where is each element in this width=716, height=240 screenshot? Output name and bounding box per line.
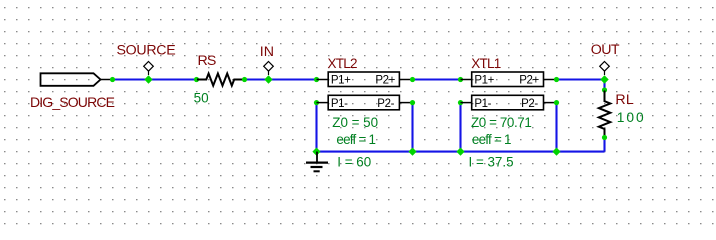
pin P2- dot bbox=[554, 100, 559, 105]
ground bar 3 bbox=[314, 170, 320, 172]
marker stem bbox=[604, 71, 606, 75]
svg-text:SOURCE: SOURCE bbox=[117, 42, 176, 58]
svg-text:P1+: P1+ bbox=[474, 75, 494, 87]
svg-text:IN: IN bbox=[260, 44, 274, 60]
svg-text:P2+: P2+ bbox=[375, 75, 395, 87]
resistor RL bbox=[599, 87, 646, 140]
node diamond marker bbox=[600, 62, 610, 72]
wire bottom ground rail bbox=[317, 151, 605, 153]
pin P2+ lead bbox=[399, 79, 412, 81]
pin P2- dot bbox=[410, 100, 415, 105]
wire from DIG_SOURCE pin to node SOURCE and resistor RS pin 1 bbox=[113, 78, 197, 80]
pin 1 dot bbox=[602, 87, 607, 92]
marker stem bbox=[268, 71, 270, 75]
pin 1 dot bbox=[194, 77, 199, 82]
ground bbox=[306, 152, 328, 172]
svg-text:Z0 = 70.71: Z0 = 70.71 bbox=[471, 115, 531, 130]
node OUT bbox=[591, 42, 620, 84]
source body outline bbox=[41, 73, 101, 86]
junction node at ground rail x=460.5 bbox=[456, 148, 464, 156]
svg-text:DIG_SOURCE: DIG_SOURCE bbox=[30, 94, 115, 110]
output pin lead bbox=[101, 79, 113, 81]
svg-text:P2-: P2- bbox=[377, 98, 394, 110]
positive port box bbox=[328, 72, 399, 87]
pin P2+ lead bbox=[544, 79, 557, 81]
svg-text:50: 50 bbox=[194, 91, 209, 106]
ground bar 2 bbox=[311, 166, 323, 168]
svg-text:eeff = 1: eeff = 1 bbox=[336, 132, 375, 147]
pin P1- dot bbox=[458, 100, 463, 105]
svg-text:eeff = 1: eeff = 1 bbox=[472, 132, 511, 147]
ground stem bbox=[316, 152, 318, 163]
pin P1+ lead bbox=[461, 79, 472, 81]
wire from XTL1 pin P2- down to ground rail bbox=[555, 103, 557, 152]
svg-text:I = 60: I = 60 bbox=[337, 154, 371, 169]
junction node at ground rail x=316.5 bbox=[312, 148, 320, 156]
pin P1+ dot bbox=[314, 77, 319, 82]
svg-text:P1+: P1+ bbox=[331, 75, 351, 87]
junction node at ground rail x=556.5 bbox=[552, 148, 560, 156]
wire from resistor RL pin 2 down and left to ground rail corner bbox=[603, 138, 605, 152]
node IN bbox=[260, 44, 274, 84]
junction node at ground rail x=412.5 bbox=[408, 148, 416, 156]
svg-text:OUT: OUT bbox=[591, 42, 620, 58]
wire from XTL2 pin P2- down to ground rail bbox=[411, 103, 413, 152]
wire from XTL2 pin P2+ to XTL1 pin P1+ bbox=[413, 78, 461, 80]
svg-text:P1-: P1- bbox=[474, 98, 491, 110]
wire from XTL1 pin P2+ to node OUT bbox=[557, 78, 605, 80]
resistor RS bbox=[194, 53, 247, 106]
svg-text:RL: RL bbox=[615, 92, 634, 108]
pin P2+ dot bbox=[410, 77, 415, 82]
pin 2 dot bbox=[242, 77, 247, 82]
ground bar 1 bbox=[306, 162, 328, 164]
node junction dot bbox=[144, 75, 152, 83]
negative port box bbox=[472, 95, 544, 110]
transmission line XTL1 bbox=[458, 56, 559, 110]
digital source U1 DIG_SOURCE bbox=[30, 73, 115, 110]
node diamond marker bbox=[264, 62, 274, 72]
negative port box bbox=[328, 95, 399, 110]
pin P2- lead bbox=[399, 102, 412, 104]
svg-text:100: 100 bbox=[617, 110, 646, 125]
pin P2+ dot bbox=[554, 77, 559, 82]
wire from resistor RS pin 2 through node IN to XTL2 pin P1+ bbox=[245, 78, 317, 80]
marker stem bbox=[148, 71, 150, 75]
wire from node OUT down to resistor RL pin 1 bbox=[603, 80, 605, 91]
node junction dot bbox=[600, 75, 608, 83]
positive port box bbox=[472, 72, 544, 87]
pin P1- lead bbox=[461, 102, 472, 104]
resistor zigzag body bbox=[599, 91, 611, 138]
svg-text:I = 37.5: I = 37.5 bbox=[469, 155, 514, 170]
pin P1- dot bbox=[314, 100, 319, 105]
svg-text:Z0 = 50: Z0 = 50 bbox=[332, 115, 378, 130]
pin dot of DIG_SOURCE output bbox=[110, 77, 115, 82]
transmission line XTL2 bbox=[314, 56, 415, 110]
node SOURCE bbox=[117, 42, 176, 83]
svg-text:P2+: P2+ bbox=[519, 75, 539, 87]
svg-text:P1-: P1- bbox=[331, 98, 348, 110]
svg-text:XTL2: XTL2 bbox=[328, 56, 358, 71]
svg-text:RS: RS bbox=[198, 53, 216, 69]
pin P2- lead bbox=[544, 102, 557, 104]
node diamond marker bbox=[144, 62, 154, 72]
pin 2 dot bbox=[602, 135, 607, 140]
pin P1- lead bbox=[317, 102, 329, 104]
svg-text:P2-: P2- bbox=[521, 98, 538, 110]
node junction dot bbox=[264, 75, 272, 83]
resistor zigzag body bbox=[197, 74, 244, 86]
pin P1+ dot bbox=[458, 77, 463, 82]
wire from XTL2 pin P1- down to ground rail bbox=[315, 103, 317, 152]
pin P1+ lead bbox=[317, 79, 329, 81]
svg-text:XTL1: XTL1 bbox=[471, 56, 501, 71]
wire from XTL1 pin P1- down to ground rail bbox=[459, 103, 461, 152]
